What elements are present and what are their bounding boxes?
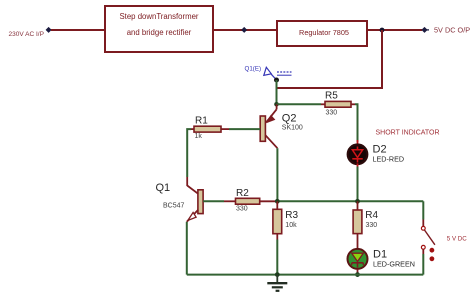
wire right rail bottom [422,249,424,274]
wire R1 left down to Q1 collector [187,129,194,186]
junction regulator output [380,28,385,33]
wire Q1 base to R2 [203,200,235,202]
svg-text:5V DC O/P: 5V DC O/P [434,26,470,35]
wire node row to right rail [277,200,423,202]
junction D2 R4 node [355,199,360,204]
wire D2 to node row [357,164,359,202]
resistor R5 [325,91,351,117]
block regulator 7805 U1 [277,21,367,46]
resistor R1 [194,116,221,140]
svg-text:R1: R1 [195,116,208,127]
svg-text:Q1: Q1 [156,182,171,194]
node 230V AC input label [9,31,44,38]
wire R2 to node [260,200,278,202]
svg-text:Q2: Q2 [282,113,297,125]
svg-text:Regulator 7805: Regulator 7805 [299,28,349,37]
svg-text:SHORT INDICATOR: SHORT INDICATOR [376,130,440,137]
wire ground rail [187,274,423,276]
label 5 V DC [447,235,467,242]
resistor R4 [353,201,378,249]
svg-text:330: 330 [326,110,338,117]
svg-text:Step downTransformer: Step downTransformer [119,12,198,21]
junction ground rail at R3 [275,272,280,277]
transistor Q2 SK100 [260,104,303,148]
svg-text:R2: R2 [236,188,249,199]
wire regulator output down to Q2 emitter net [277,30,383,88]
junction D1 ground rail [355,272,360,277]
terminal marker between blocks [241,27,247,33]
wire D1 to ground rail [357,269,359,275]
terminal output marker [421,27,429,33]
junction at R5 branch [274,102,279,107]
ground [267,275,287,291]
LED D1 LED-GREEN [348,249,415,269]
probe connection dot [274,78,279,83]
wire R1 right to Q2 base [221,128,260,130]
node 5V DC output label [434,26,470,35]
wire probe node down [276,80,278,104]
svg-text:SK100: SK100 [282,125,303,132]
wire D2 top stub [357,140,359,145]
voltage probe Q1(E) [245,66,292,80]
wire input to transformer [51,29,105,31]
svg-text:LED-RED: LED-RED [373,154,405,163]
wire R3 to ground rail [276,240,278,275]
wire R5 to D2 [351,104,358,142]
resistor R2 [236,188,260,213]
resistor R3 [273,201,299,239]
switch SW1 [421,226,435,261]
wire Q2 collector down to node [276,148,278,201]
label SHORT INDICATOR [376,130,440,137]
svg-text:330: 330 [366,222,378,229]
svg-text:10k: 10k [285,222,297,229]
junction R2 R3 node [275,199,280,204]
svg-text:230V AC I/P: 230V AC I/P [9,31,44,38]
svg-text:5 V DC: 5 V DC [447,235,467,242]
svg-text:BC547: BC547 [163,203,185,210]
wire right rail top [422,201,424,226]
wire regulator to output [367,29,422,31]
wire Q1 emitter down [186,222,188,275]
svg-text:Q1(E): Q1(E) [245,66,262,73]
transistor Q1 BC547 [156,182,204,222]
svg-text:330: 330 [236,206,248,213]
wire transformer to regulator [213,29,277,31]
terminal input marker [46,27,53,33]
svg-text:LED-GREEN: LED-GREEN [373,259,415,268]
svg-text:and bridge rectifier: and bridge rectifier [127,28,192,37]
wire to R5 [277,103,326,105]
svg-text:1k: 1k [195,133,203,140]
block step-down transformer and bridge rectifier [105,6,213,52]
LED D2 LED-RED [348,144,404,165]
svg-text:R4: R4 [365,210,378,221]
svg-text:R5: R5 [325,91,338,102]
svg-text:R3: R3 [285,210,298,221]
